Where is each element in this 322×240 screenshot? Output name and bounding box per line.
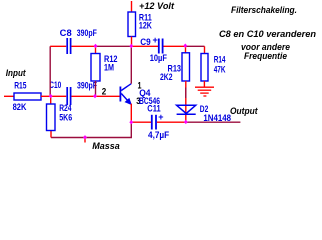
svg-text:R14: R14 [214, 55, 226, 65]
node A junction [49, 94, 53, 98]
resistor R15 [13, 81, 41, 112]
svg-text:390pF: 390pF [77, 81, 97, 91]
wire R15 to node A [41, 95, 51, 97]
resistor R11 [128, 12, 152, 37]
svg-text:Massa: Massa [92, 141, 120, 151]
wire emitter vertical [130, 104, 132, 123]
svg-text:2K2: 2K2 [160, 72, 173, 82]
wire corner top-left: vertical node A up to top line [49, 46, 51, 96]
node H junction (massa) [83, 135, 87, 139]
svg-text:+: + [158, 112, 163, 122]
wire node C to node D [96, 45, 132, 47]
svg-text:4,7µF: 4,7µF [148, 130, 170, 140]
wire R11 bottom stub [131, 37, 133, 47]
wire R12 top stub [95, 46, 97, 53]
wire input stub [4, 95, 14, 97]
svg-text:C10: C10 [49, 80, 61, 90]
capacitor C10 [49, 80, 97, 105]
wire node A to C10 [51, 95, 66, 97]
transistor Q4 [120, 81, 161, 107]
resistor R12 [91, 54, 118, 82]
svg-text:C9: C9 [140, 37, 151, 47]
diode D2 [177, 104, 231, 123]
svg-text:10µF: 10µF [150, 53, 168, 63]
capacitor C9 [140, 35, 167, 63]
svg-text:47K: 47K [214, 65, 226, 75]
node G junction (emitter) [129, 120, 133, 124]
wire up to R24 [50, 131, 52, 138]
svg-text:+12 Volt: +12 Volt [139, 1, 175, 11]
wire output [186, 121, 241, 123]
resistor R24 [47, 96, 73, 130]
resistor R13 [160, 46, 190, 82]
svg-text:5K6: 5K6 [59, 112, 72, 122]
ground [195, 87, 214, 96]
wire C8 to node C [72, 45, 96, 47]
svg-text:C8: C8 [60, 28, 72, 38]
wire emitter down to bottom line [51, 122, 131, 137]
svg-text:2: 2 [102, 86, 107, 96]
svg-text:+: + [153, 35, 158, 45]
wire C10 to node B [72, 95, 96, 97]
svg-text:1M: 1M [104, 63, 114, 73]
svg-text:390pF: 390pF [77, 28, 97, 38]
wire base: node B to Q4 base [95, 95, 120, 97]
svg-text:Filterschakeling.: Filterschakeling. [231, 5, 297, 15]
node C junction [94, 44, 98, 48]
wire C11 to node F [157, 121, 186, 123]
wire R13 bottom to diode [185, 81, 187, 122]
wire C9 to node E [164, 45, 186, 47]
wire collector vertical [130, 46, 132, 83]
wire R14 to ground [203, 81, 205, 87]
wire top-left horizontal to C8 [50, 45, 66, 47]
node B junction [93, 94, 97, 98]
wire overlay dark segment [185, 88, 187, 99]
node E junction [183, 44, 187, 48]
svg-text:82K: 82K [13, 102, 27, 112]
wire node E to corner R14 [185, 45, 204, 47]
wire node D to C9 [131, 45, 158, 47]
wire corner down to R14 [204, 46, 206, 53]
svg-text:Input: Input [6, 68, 27, 78]
node F junction (output/diode) [184, 120, 188, 124]
wire massa stub [84, 138, 86, 143]
wire R12 bottom stub [95, 81, 97, 95]
svg-text:C8 en C10 veranderen: C8 en C10 veranderen [219, 29, 317, 39]
wire C11 left [131, 121, 151, 123]
svg-text:12K: 12K [139, 21, 152, 31]
capacitor C8 [60, 28, 97, 54]
capacitor C11 [147, 103, 169, 139]
svg-text:Output: Output [230, 106, 258, 116]
wire +12V stub [131, 1, 133, 12]
node D junction [129, 44, 133, 48]
svg-text:R15: R15 [14, 81, 26, 91]
resistor R14 [201, 54, 226, 82]
svg-text:Frequentie: Frequentie [244, 51, 287, 61]
